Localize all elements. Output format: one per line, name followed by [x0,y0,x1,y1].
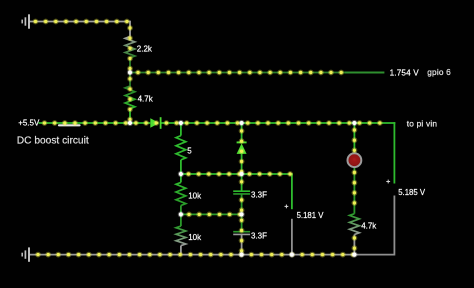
svg-text:10k: 10k [188,233,202,242]
svg-text:3.3F: 3.3F [251,191,267,200]
svg-text:2.2k: 2.2k [137,45,153,54]
svg-text:1.754 V: 1.754 V [390,69,420,78]
svg-text:to pi vin: to pi vin [407,119,438,129]
svg-text:DC boost circuit: DC boost circuit [17,136,89,147]
svg-text:5: 5 [187,147,192,156]
svg-text:4.7k: 4.7k [361,221,377,230]
svg-text:3.3F: 3.3F [251,232,267,241]
svg-text:gpio 6: gpio 6 [427,67,451,77]
svg-text:+5.5V: +5.5V [18,119,40,128]
svg-text:5.181 V: 5.181 V [297,211,325,220]
svg-text:4.7k: 4.7k [138,94,154,103]
svg-text:10k: 10k [188,191,202,200]
svg-text:5.185 V: 5.185 V [398,188,426,197]
